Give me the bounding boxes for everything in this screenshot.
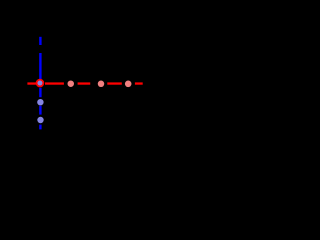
periwinkle data point 1 on blue line xyxy=(37,99,43,105)
intersection marker: red ring with periwinkle center xyxy=(37,80,44,87)
pink data point 3 on red line xyxy=(125,81,132,88)
red dashed horizontal line: dash segment 5 (right end) xyxy=(135,82,143,84)
red dashed horizontal line: long segment 2 xyxy=(45,82,64,84)
red dashed horizontal line: dash segment 4 xyxy=(107,82,122,84)
blue dashed vertical line: dash segment 3 xyxy=(39,88,41,97)
blue dashed vertical line: dash segment 4 xyxy=(39,106,41,115)
blue dashed vertical line: long segment 2 xyxy=(39,53,41,80)
pink data point 2 on red line xyxy=(98,81,105,88)
periwinkle data point 2 on blue line xyxy=(37,117,43,123)
blue dashed vertical line: dash segment 5 (bottom) xyxy=(39,125,41,130)
blue dashed vertical line: dash segment 1 (top) xyxy=(39,37,41,45)
red dashed horizontal line: dash segment 3 xyxy=(78,82,91,84)
red dashed horizontal line: dash segment 1 (left stub) xyxy=(27,82,36,84)
pink data point 1 on red line xyxy=(68,80,75,87)
